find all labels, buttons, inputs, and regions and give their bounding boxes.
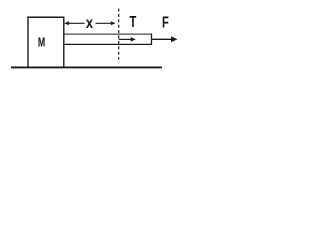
dimension arrow x (right head) — [111, 21, 116, 25]
svg-text:T: T — [130, 12, 137, 31]
block M (top edge) — [27, 16, 64, 18]
dashed section line — [118, 9, 120, 60]
block M (right edge) — [63, 17, 65, 68]
svg-text:F: F — [162, 13, 169, 32]
svg-text:x: x — [86, 15, 93, 33]
tension arrow T (shaft) — [119, 38, 132, 40]
dimension arrow x (left head) — [64, 21, 69, 25]
block M (left edge) — [27, 17, 29, 68]
tension arrow T (head) — [131, 37, 136, 42]
force arrow F (shaft) — [152, 38, 172, 40]
rod (top edge) — [65, 33, 153, 35]
rod (right end) — [151, 34, 153, 45]
svg-text:M: M — [38, 36, 45, 50]
force arrow F (head) — [171, 36, 178, 42]
dimension arrow x (left segment) — [68, 22, 85, 24]
dimension arrow x (right segment) — [96, 22, 113, 24]
ground line — [11, 66, 162, 68]
rod (bottom edge) — [65, 43, 153, 45]
